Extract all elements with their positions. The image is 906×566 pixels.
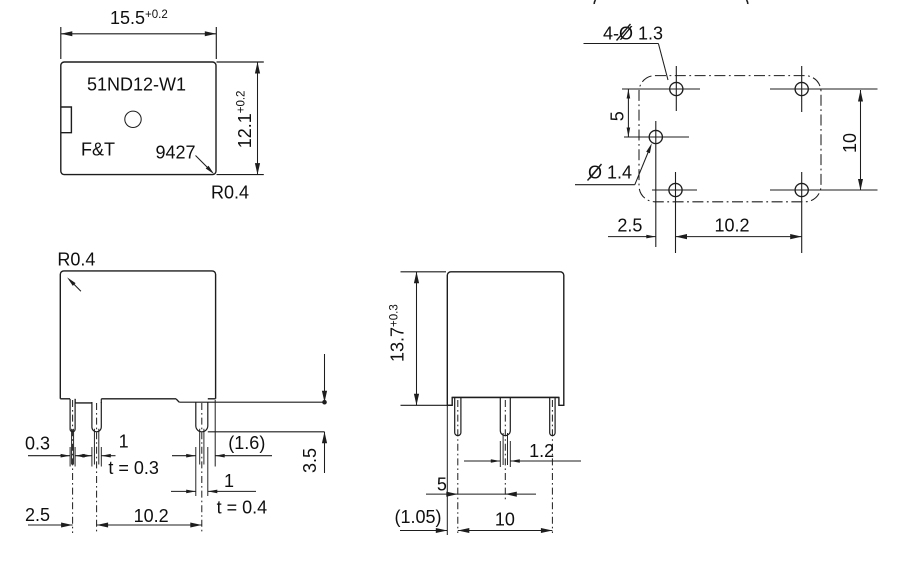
side view: bottom step between pin 1 and pin 2: [74, 399, 76, 403]
svg-text:t = 0.3: t = 0.3: [108, 458, 159, 478]
svg-text:F&T: F&T: [81, 140, 115, 160]
dimension 1.2 (middle pin width): lines and arrows: [464, 460, 500, 462]
dimension 13.7+0.3: dimension line with arrows: [416, 272, 418, 406]
pcb layout: hole bottom-right with crosshair: [795, 183, 808, 196]
dimension 3.5 (pin length): lower reference line at pin tips: [208, 431, 325, 433]
svg-text:1.2: 1.2: [529, 441, 554, 461]
pcb layout: hole top-left with crosshair: [670, 82, 683, 95]
svg-text:10.2: 10.2: [134, 506, 169, 526]
svg-text:51ND12-W1: 51ND12-W1: [87, 75, 186, 95]
side view: bottom edge segment right of pin 3: [208, 398, 216, 400]
svg-text:R0.4: R0.4: [57, 249, 95, 269]
dimension (1.05): line and arrow: [400, 530, 447, 532]
top view: side notch on left edge: [61, 107, 72, 133]
side view: relay body outline (left, top, right edges): [60, 271, 215, 399]
svg-text:(1.6): (1.6): [228, 433, 265, 453]
side view: pin 3 centerline: [201, 403, 203, 533]
dimension 2.5 (pin pitch): line and arrow: [28, 524, 73, 526]
top view: leader arrow from 9427 to corner: [196, 156, 210, 170]
svg-text:4-Ø 1.3: 4-Ø 1.3: [603, 24, 663, 44]
pcb layout: hole bottom-left with crosshair: [669, 183, 682, 196]
dimension 13.7+0.3: extension lines: [401, 271, 447, 273]
dimension 5 (hole spacing): dimension line with arrows: [627, 89, 629, 137]
svg-text:3.5: 3.5: [300, 448, 320, 473]
svg-text:1: 1: [224, 471, 234, 491]
top view: relay body outline: [61, 62, 216, 175]
svg-text:(1.05): (1.05): [395, 507, 442, 527]
dimension 10.2 (pin pitch): line with arrows: [97, 524, 202, 526]
dimension 12.1+0.2: dimension line with arrows: [257, 62, 259, 175]
side view: pin 1 (left): [70, 399, 75, 432]
dimension 1 (pin3 tip): lines and arrows: [171, 490, 196, 492]
svg-text:5: 5: [437, 474, 447, 494]
front view: pin middle centerline: [504, 400, 506, 500]
side view: bottom edge segment left of pin 1: [60, 398, 70, 400]
side view: pin 2 centerline: [96, 403, 98, 533]
front view: bottom edge between feet: [452, 396, 559, 398]
svg-text:t = 0.4: t = 0.4: [217, 498, 268, 518]
side view: bottom step before pin 3, continuing as 3.5 reference line: [176, 399, 179, 402]
dimension 10.2: dimension line with arrows: [676, 236, 802, 238]
dimension 1 (pin2 thickness): arrow and line: [101, 455, 115, 457]
svg-text:2.5: 2.5: [617, 216, 642, 236]
pcb layout: caption parenthesis tips (cut off at top): [594, 0, 595, 4]
dimension 15.5+0.2: extension lines: [60, 27, 62, 59]
front view: pin right centerline: [551, 400, 553, 533]
svg-text:9427: 9427: [156, 143, 196, 163]
svg-text:2.5: 2.5: [25, 505, 50, 525]
front view: relay body outline with corner feet: [447, 272, 564, 406]
pcb layout: hole top-right with crosshair: [795, 82, 808, 95]
side view: pin 3 (right): [196, 402, 208, 432]
front view: pin right: [550, 397, 555, 435]
svg-text:1: 1: [119, 432, 129, 452]
svg-text:10.2: 10.2: [715, 216, 750, 236]
pcb layout: hole middle-left with crosshair: [649, 130, 662, 143]
dimension 10 (hole spacing): dimension line with arrows: [860, 90, 862, 191]
pcb layout: dash-dot board outline: [639, 76, 821, 202]
dimension 12.1+0.2: extension lines: [217, 61, 264, 63]
front view: pin left: [455, 397, 461, 435]
svg-text:R0.4: R0.4: [211, 182, 249, 202]
front view: extension line from body left edge: [446, 405, 448, 535]
svg-text:0.3: 0.3: [25, 434, 50, 454]
dimension 10 (pin spacing): line with arrows: [458, 530, 553, 532]
dimension 5 (pin spacing): line with arrows: [426, 493, 536, 495]
svg-text:10: 10: [495, 510, 515, 530]
dimension 15.5+0.2: dimension line with arrows: [61, 33, 217, 35]
side view: pin 1 centerline: [72, 400, 74, 533]
dimension 2.5: dimension line and arrow: [608, 236, 656, 238]
front view: pin middle: [500, 397, 510, 435]
side view: extension line at body right edge for (1.6): [214, 400, 216, 467]
svg-text:5: 5: [607, 111, 627, 121]
dimension 3.5: vertical line with arrows and node dot: [324, 354, 326, 402]
svg-text:10: 10: [840, 133, 860, 153]
dimension (1.6): lines and arrows: [172, 455, 196, 457]
front view: pin left centerline: [457, 400, 459, 533]
side view: pin 2: [92, 402, 101, 432]
top view: center hole circle: [125, 111, 141, 127]
dimension 0.3 (pin1 thickness): arrows and lines: [28, 455, 70, 457]
side view: bottom edge segment between pin 2 and step: [101, 398, 176, 400]
